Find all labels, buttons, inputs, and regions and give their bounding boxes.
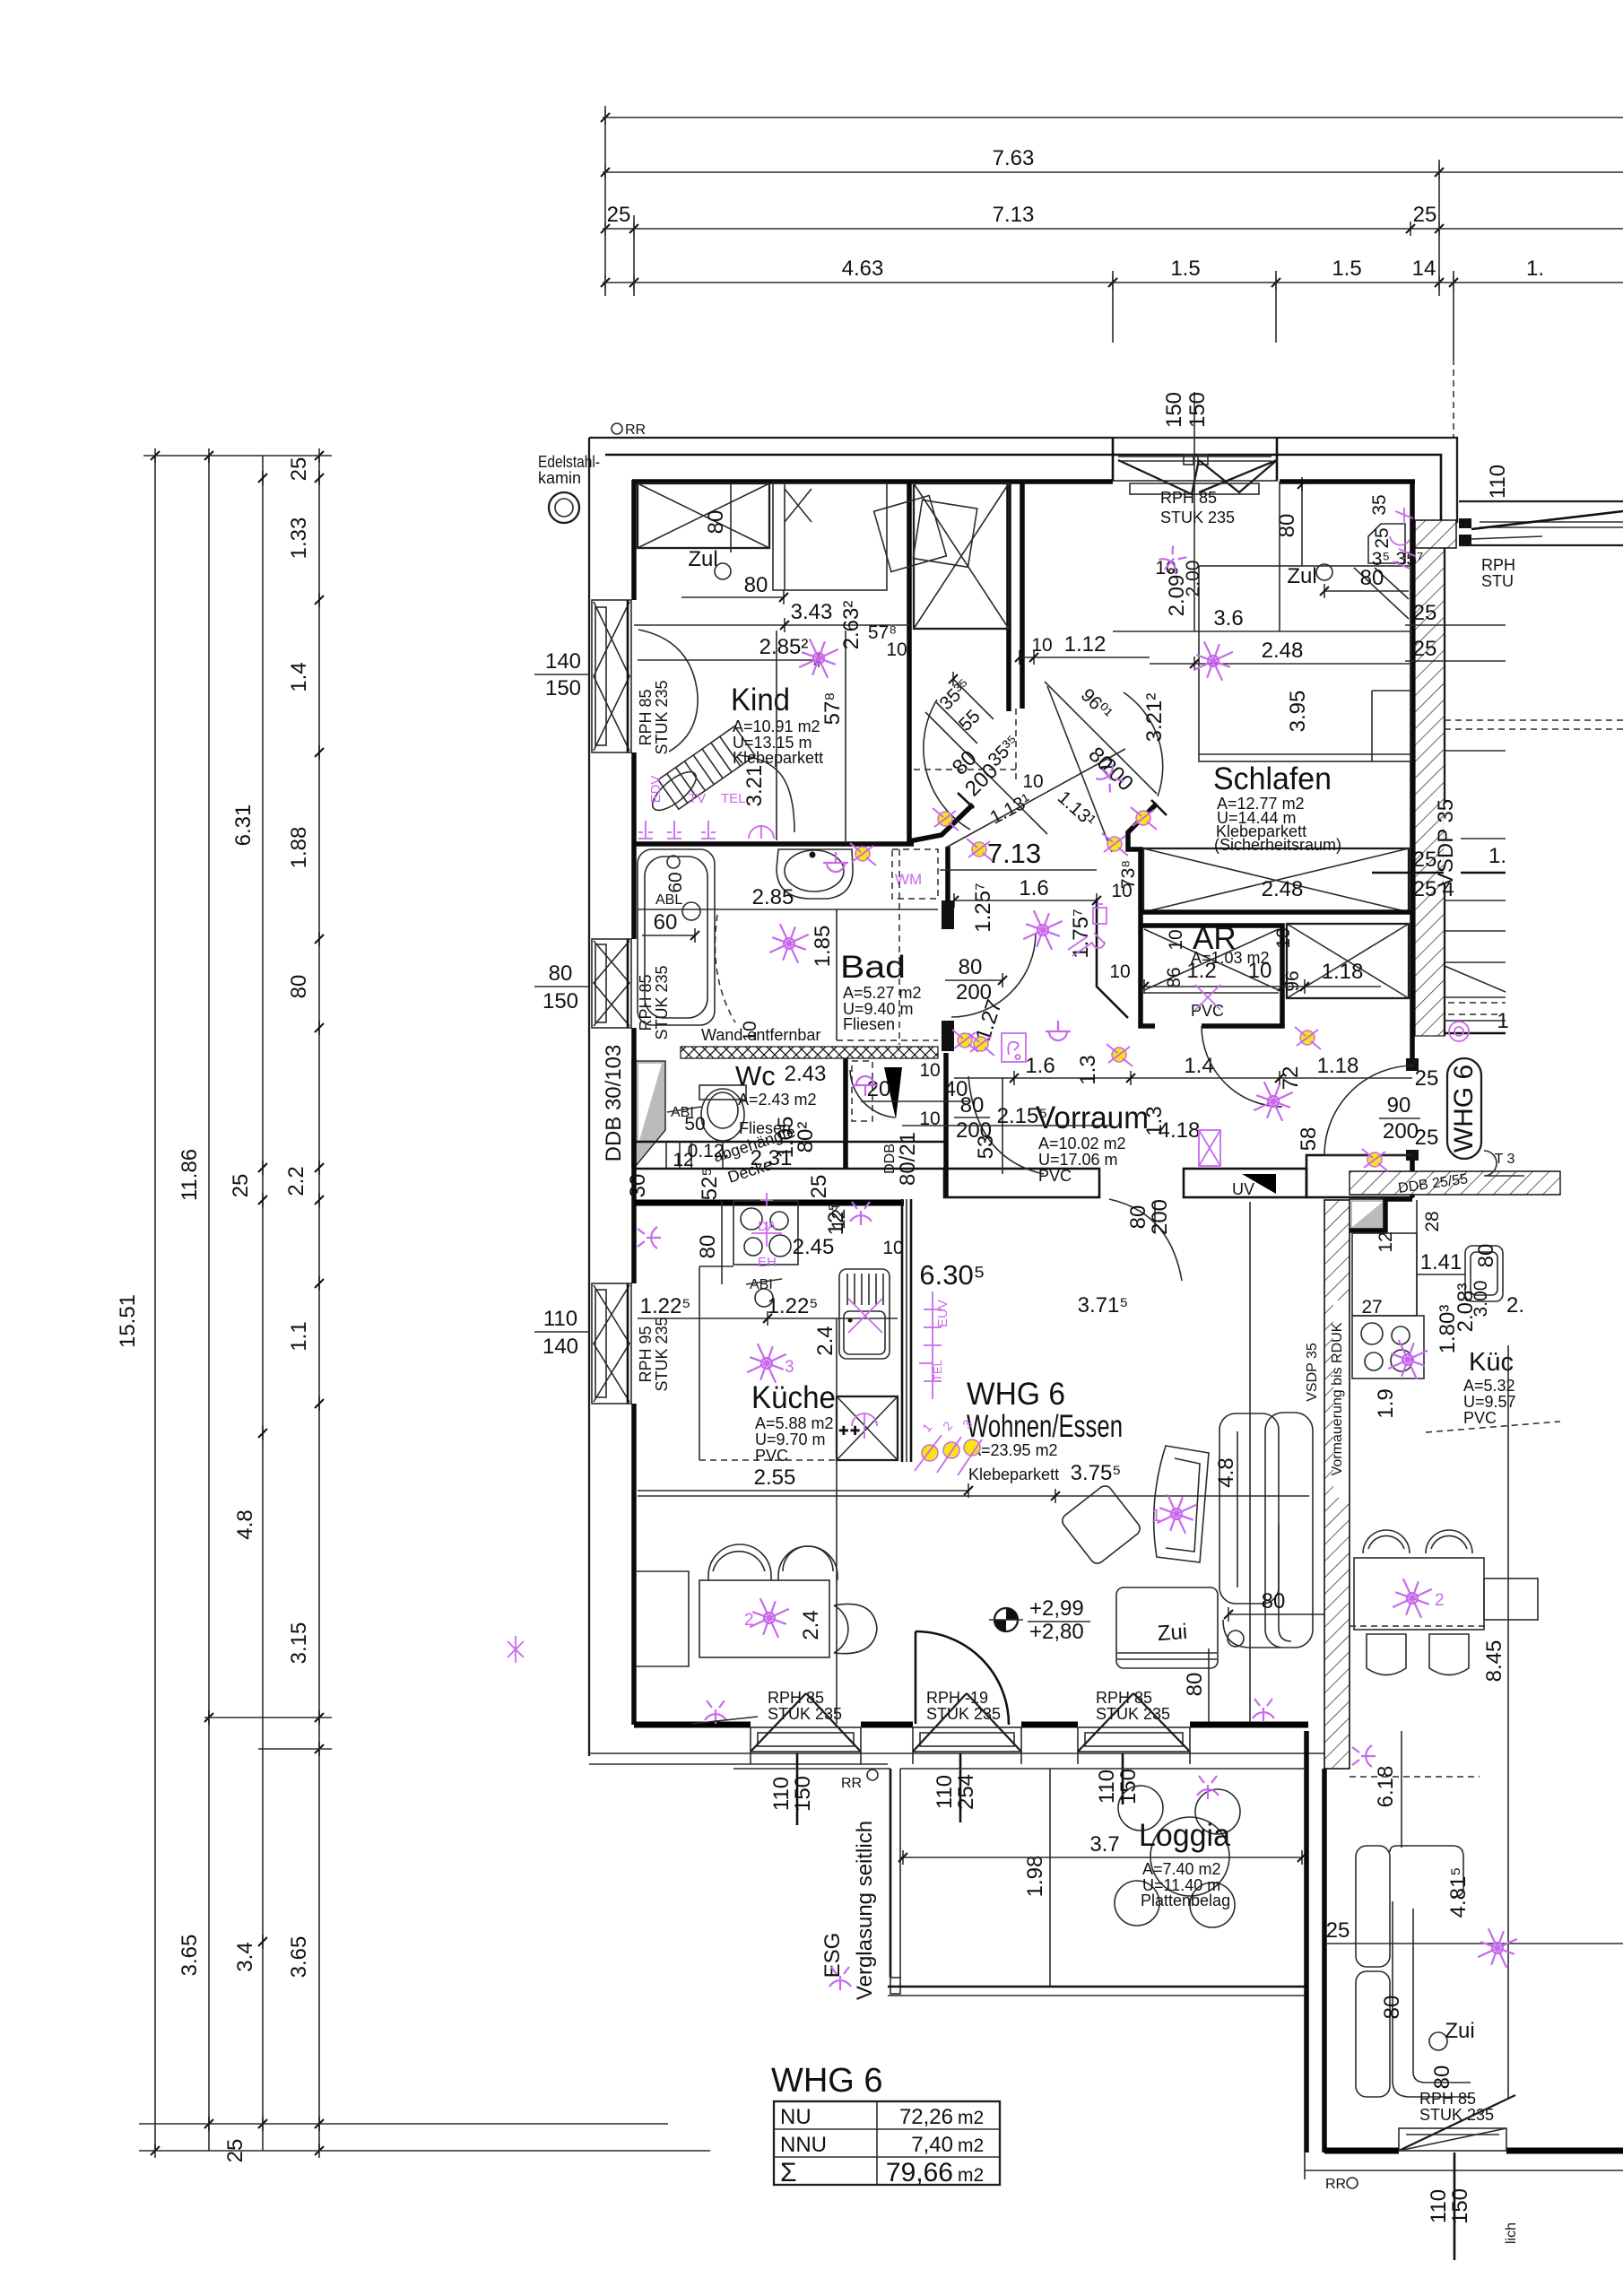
Wc door leaf black wedge (884, 1067, 902, 1119)
svg-text:80: 80 (1360, 566, 1384, 590)
socket vorraum right (1107, 1044, 1133, 1066)
svg-text:25: 25 (229, 1174, 253, 1198)
svg-text:2.45: 2.45 (793, 1235, 835, 1259)
svg-text:140: 140 (542, 1335, 578, 1359)
svg-text:80: 80 (1183, 1673, 1207, 1697)
top dim line 25/7.13/25 (603, 228, 1623, 230)
switch Kind top (1157, 544, 1188, 576)
svg-text:VSDP 35: VSDP 35 (1434, 799, 1458, 887)
door bell symbol (1002, 1033, 1026, 1062)
svg-text:2.85²: 2.85² (759, 635, 809, 659)
AR closet walls (1141, 926, 1282, 1026)
svg-text:STUK 235: STUK 235 (1160, 509, 1235, 526)
level marker (994, 1608, 1018, 1631)
svg-text:79,66: 79,66 (886, 2158, 953, 2187)
svg-text:150: 150 (542, 989, 578, 1013)
Schlafen right wall inner face (1410, 482, 1415, 1065)
hts symbol near wc (853, 1076, 878, 1096)
svg-text:STUK 235: STUK 235 (653, 680, 671, 754)
neighbor window top right (1459, 465, 1623, 590)
svg-text:80: 80 (959, 955, 983, 979)
Schlafen bed (1199, 566, 1410, 761)
sockets Bad basin (823, 852, 848, 872)
svg-text:EUV: EUV (935, 1300, 950, 1327)
svg-text:30: 30 (626, 1174, 650, 1198)
svg-text:1.5: 1.5 (1332, 257, 1361, 281)
ceiling light neighbor wohnen (1474, 1925, 1520, 1970)
bottom dim lines under wall (796, 1753, 799, 1825)
svg-text:254: 254 (954, 1774, 978, 1810)
svg-text:35⁷: 35⁷ (1396, 549, 1424, 570)
svg-text:RPH 85: RPH 85 (637, 689, 655, 745)
band piece right connecting door jamb (1306, 1155, 1412, 1197)
svg-text:12: 12 (673, 1150, 693, 1170)
svg-text:3.21²: 3.21² (1142, 693, 1167, 743)
svg-text:1.18: 1.18 (1322, 960, 1364, 984)
svg-text:1.22⁵: 1.22⁵ (640, 1294, 691, 1318)
neighbor dining table (1354, 1558, 1484, 1630)
svg-text:28: 28 (1422, 1211, 1443, 1231)
outer wall top line (589, 438, 1457, 523)
svg-text:1.4: 1.4 (287, 662, 311, 691)
svg-text:10: 10 (1031, 635, 1052, 656)
vestibule diagonal dims (935, 701, 977, 744)
Kind chair (647, 766, 701, 817)
UV black triangle in band (1242, 1174, 1276, 1194)
svg-text:1.: 1. (1526, 257, 1544, 281)
svg-text:10: 10 (882, 1238, 903, 1258)
svg-text:6.30⁵: 6.30⁵ (919, 1259, 985, 1291)
svg-text:80: 80 (960, 1093, 985, 1118)
svg-text:NNU: NNU (780, 2133, 827, 2157)
svg-text:3.7: 3.7 (1089, 1832, 1119, 1857)
svg-text:25: 25 (287, 457, 311, 482)
svg-text:10: 10 (1248, 959, 1272, 983)
switch bottom kueche (705, 1700, 726, 1724)
Kueche top wall (634, 1200, 904, 1206)
svg-text:Zul: Zul (1287, 564, 1316, 588)
ceiling light Kueche (743, 1340, 789, 1386)
svg-text:Bad: Bad (840, 950, 906, 985)
neighbor stove (1352, 1316, 1424, 1378)
dining table (699, 1580, 829, 1657)
WHG 6 oval label (1447, 1058, 1524, 1176)
ceiling light Bad (766, 920, 811, 966)
svg-text:lich: lich (1504, 2222, 1519, 2244)
svg-text:2.85: 2.85 (752, 885, 794, 909)
Schlafen dim 80 vertical (1301, 484, 1303, 566)
svg-text:6.31: 6.31 (231, 804, 256, 847)
svg-text:3.21: 3.21 (742, 765, 767, 807)
svg-text:57⁸: 57⁸ (820, 692, 845, 726)
svg-text:WHG 6: WHG 6 (967, 1377, 1065, 1412)
switch at Schlafen door (1094, 762, 1125, 794)
svg-text:3.43: 3.43 (791, 600, 833, 624)
svg-text:10: 10 (919, 1060, 940, 1081)
Bad door jamb top (942, 900, 954, 929)
vestibule door arcs (924, 700, 970, 830)
corner lintel hatched block (1415, 520, 1456, 548)
svg-text:Vorraum: Vorraum (1036, 1100, 1149, 1135)
svg-text:86: 86 (1164, 967, 1185, 987)
svg-text:150: 150 (1162, 392, 1186, 428)
svg-text:73⁸: 73⁸ (1118, 860, 1139, 889)
svg-text:3.71⁵: 3.71⁵ (1078, 1293, 1129, 1318)
left inner chain 25/1.33/1.4/1.88/80/2.2/1.1/3.15/3.65 (318, 456, 320, 2151)
svg-text:ABL: ABL (655, 892, 682, 908)
svg-text:Fliesen: Fliesen (843, 1015, 895, 1033)
Vorraum bottom wall white band (944, 1169, 1099, 1197)
svg-text:72,26: 72,26 (899, 2105, 953, 2129)
svg-text:80²: 80² (794, 1122, 818, 1153)
svg-text:10: 10 (1109, 961, 1130, 982)
svg-text:m2: m2 (958, 2135, 984, 2156)
svg-text:PVC: PVC (1038, 1167, 1072, 1185)
svg-text:4.8: 4.8 (233, 1509, 257, 1539)
svg-text:3⁵: 3⁵ (1372, 549, 1390, 570)
svg-text:58: 58 (1297, 1127, 1321, 1152)
svg-text:3.6: 3.6 (1213, 606, 1243, 631)
svg-text:A=5.32: A=5.32 (1463, 1377, 1515, 1395)
svg-text:110: 110 (1486, 465, 1510, 499)
svg-text:80: 80 (549, 961, 573, 986)
svg-text:1.98: 1.98 (1023, 1856, 1047, 1898)
svg-text:Küche: Küche (751, 1380, 836, 1415)
svg-text:7,40: 7,40 (911, 2133, 953, 2157)
svg-text:STUK 235: STUK 235 (1419, 2106, 1494, 2124)
right wall outer line (1444, 523, 1445, 1036)
svg-text:150: 150 (791, 1776, 815, 1812)
svg-text:STUK 235: STUK 235 (653, 965, 671, 1039)
svg-text:(Sicherheitsraum): (Sicherheitsraum) (1214, 836, 1341, 854)
left overall chain 15.51 (154, 456, 156, 2151)
stove X (573, 1332, 575, 1334)
corridor dim 1.12 (1020, 657, 1150, 658)
kueche sink X (848, 1299, 882, 1333)
loggia table set (1150, 1817, 1229, 1896)
yellow hex dots row (922, 1445, 938, 1461)
magenta round socket right wall (1449, 1022, 1469, 1041)
svg-text:25: 25 (607, 203, 631, 227)
svg-text:150: 150 (545, 676, 581, 700)
Kueche dishwasher X box (837, 1396, 898, 1460)
ceiling light Wohnen (1153, 1491, 1199, 1536)
svg-text:EH: EH (758, 1255, 777, 1270)
left chain 6.31 / 25 / 4.8 / 3.4 (262, 456, 264, 2151)
svg-text:6.18: 6.18 (1374, 1766, 1398, 1808)
svg-text:U=9.70 m: U=9.70 m (755, 1431, 826, 1448)
svg-text:140: 140 (545, 649, 581, 674)
Vorraum right wall door jambs (1410, 1155, 1415, 1197)
svg-text:1.33: 1.33 (287, 517, 311, 560)
svg-text:2.43: 2.43 (785, 1062, 827, 1086)
svg-text:Loggia: Loggia (1139, 1818, 1231, 1853)
svg-text:2.2: 2.2 (284, 1166, 308, 1196)
vestibule right jamb (1128, 804, 1157, 926)
svg-text:25: 25 (1413, 203, 1437, 227)
magenta UV box symbol (1199, 1130, 1220, 1166)
corridor-Vorraum door arc (968, 1076, 1044, 1174)
neighbor bottom dims (1454, 2152, 1456, 2260)
Bad washbasin (777, 849, 853, 899)
svg-text:2.48: 2.48 (1262, 639, 1304, 663)
Vormauerung label (1333, 1300, 1349, 1498)
svg-text:1.80³: 1.80³ (1436, 1305, 1460, 1354)
svg-text:110: 110 (543, 1307, 577, 1331)
svg-text:1: 1 (1151, 1507, 1161, 1526)
svg-text:Wand entfernbar: Wand entfernbar (701, 1026, 820, 1044)
svg-text:2.00: 2.00 (1183, 561, 1203, 597)
svg-text:7.63: 7.63 (993, 146, 1035, 170)
magenta deco vorraum heater (1068, 933, 1105, 956)
neighbor bottom wall (1324, 2148, 1399, 2154)
svg-text:200: 200 (1383, 1119, 1419, 1144)
svg-text:EDV: EDV (648, 776, 664, 804)
svg-text:+2,99: +2,99 (1029, 1596, 1084, 1621)
svg-text:25: 25 (1415, 1066, 1439, 1091)
svg-text:10: 10 (1022, 771, 1043, 792)
neighbor kitchen counter (1352, 1233, 1417, 1316)
svg-text:1.3: 1.3 (1142, 1106, 1167, 1135)
svg-text:1.41: 1.41 (1420, 1250, 1462, 1274)
right exterior wall hatched band (1415, 523, 1445, 1036)
top dim line 7.63 (603, 171, 1623, 173)
dashed witness to building corner (1453, 359, 1454, 437)
svg-text:110: 110 (1095, 1770, 1119, 1804)
svg-text:80: 80 (1126, 1205, 1150, 1230)
Wc left wall below shaft (631, 1058, 637, 1169)
svg-text:3.15: 3.15 (287, 1622, 311, 1665)
svg-text:25: 25 (807, 1175, 831, 1199)
Wc niche divider wall (843, 1058, 848, 1169)
svg-text:150: 150 (1185, 392, 1210, 428)
left chain 11.86 / 3.65 (208, 456, 210, 2151)
svg-text:Plattenbelag: Plattenbelag (1141, 1892, 1230, 1909)
AR cross diagonals (1144, 929, 1279, 990)
ceiling light neighbor dining (1389, 1575, 1435, 1621)
svg-text:Wohnen/Essen: Wohnen/Essen (967, 1409, 1123, 1444)
AR door arc (1202, 1026, 1282, 1107)
svg-text:1: 1 (1497, 1009, 1508, 1033)
svg-text:✚✚: ✚✚ (838, 1423, 861, 1438)
svg-text:Küc: Küc (1469, 1348, 1514, 1377)
corridor right wall double (1006, 482, 1011, 711)
Zul sofa (1116, 1587, 1218, 1668)
svg-text:A=2.43 m2: A=2.43 m2 (738, 1091, 817, 1109)
ceiling light Kind (795, 635, 841, 681)
svg-text:RPH: RPH (1481, 556, 1515, 574)
shaft gray box left of Wc (636, 1061, 665, 1166)
outer wall left line (588, 438, 590, 1756)
svg-text:35: 35 (1369, 494, 1390, 515)
svg-text:3: 3 (785, 1358, 794, 1377)
magenta X plain AR (1195, 985, 1220, 1010)
main bottom wall segments (634, 1722, 751, 1728)
svg-text:RR: RR (841, 1776, 862, 1791)
svg-text:U=17.06 m: U=17.06 m (1038, 1151, 1118, 1169)
switch Wc top (850, 1202, 872, 1225)
AR inner shelf line (1144, 992, 1279, 994)
svg-text:TV: TV (689, 791, 706, 806)
svg-text:52⁵: 52⁵ (698, 1168, 722, 1201)
svg-text:10: 10 (886, 639, 907, 660)
svg-text:Zul: Zul (688, 547, 717, 571)
svg-text:VSDP 35: VSDP 35 (1305, 1343, 1320, 1402)
svg-text:Klebeparkett: Klebeparkett (733, 749, 823, 767)
svg-text:PVC: PVC (755, 1447, 788, 1465)
svg-text:10: 10 (1273, 927, 1294, 948)
svg-text:110: 110 (1427, 2189, 1451, 2223)
svg-text:3.65: 3.65 (287, 1936, 311, 1979)
DDB dashed shaft (852, 1061, 872, 1121)
ceiling light neighbor kitchen (1384, 1336, 1430, 1382)
svg-text:1.85: 1.85 (811, 926, 835, 968)
summary table (774, 2101, 1000, 2185)
svg-text:STUK 235: STUK 235 (926, 1705, 1001, 1723)
loggia top edge line (900, 1768, 1306, 1770)
svg-text:DDB 30/103: DDB 30/103 (602, 1045, 626, 1162)
Kueche/Wohnen divider wall (901, 1199, 904, 1462)
top overall dim line (603, 117, 1623, 118)
svg-text:11.86: 11.86 (178, 1149, 202, 1201)
switch Kueche wall (638, 1227, 661, 1248)
svg-text:RPH 85: RPH 85 (1160, 489, 1217, 507)
svg-text:Schlafen: Schlafen (1213, 761, 1332, 796)
Kueche stove (733, 1201, 798, 1265)
svg-text:2: 2 (744, 1611, 754, 1630)
witness verticals top (604, 106, 606, 296)
svg-text:10: 10 (1166, 929, 1186, 950)
svg-text:1.3: 1.3 (1076, 1055, 1100, 1084)
svg-text:WHG 6: WHG 6 (1449, 1065, 1479, 1152)
svg-text:4.81⁵: 4.81⁵ (1446, 1867, 1471, 1918)
svg-text:Σ: Σ (780, 2158, 797, 2187)
svg-text:80: 80 (744, 573, 768, 597)
corridor tilted boxes (874, 496, 947, 572)
vestibule left jamb (909, 804, 973, 841)
Kind right wall (907, 482, 912, 844)
svg-text:80: 80 (1380, 1996, 1404, 2020)
corridor top closet X-box (914, 483, 1009, 629)
svg-text:UV: UV (1232, 1180, 1254, 1198)
socket near entry door (1295, 1027, 1321, 1049)
svg-text:A=7.40 m2: A=7.40 m2 (1142, 1860, 1221, 1878)
svg-text:1.25⁷: 1.25⁷ (971, 883, 995, 932)
EUV magenta column (919, 1291, 942, 1399)
svg-text:27: 27 (1361, 1297, 1382, 1318)
svg-text:25: 25 (1415, 1126, 1439, 1150)
outer wall top inner line (605, 455, 1441, 523)
svg-text:25: 25 (1413, 637, 1437, 661)
top dim line 4.63/1.5/1.5/14 (603, 282, 1623, 283)
svg-text:2.4: 2.4 (799, 1610, 823, 1639)
svg-text:80: 80 (696, 1235, 720, 1259)
ceiling light Schlafen (1190, 638, 1236, 683)
svg-text:Zuі: Zuі (1445, 2019, 1474, 2043)
window top 150/150 (1113, 392, 1277, 526)
switch near AR (1046, 1021, 1071, 1040)
Bad right wall upper (945, 847, 950, 902)
svg-text:m2: m2 (958, 2165, 984, 2186)
svg-text:2.63²: 2.63² (839, 601, 864, 650)
Schlafen closet X-box (1143, 848, 1409, 912)
svg-text:1.5: 1.5 (1170, 257, 1200, 281)
armchair (1154, 1446, 1209, 1562)
svg-text:80: 80 (1262, 1589, 1286, 1613)
svg-text:TEL: TEL (721, 791, 746, 806)
svg-text:12: 12 (1376, 1231, 1396, 1252)
Bad door jamb bottom (942, 1021, 954, 1051)
sideboard west wall (637, 1571, 689, 1666)
svg-text:1.4: 1.4 (1184, 1054, 1213, 1078)
svg-text:A=5.88 m2: A=5.88 m2 (755, 1414, 834, 1432)
closet X-box right of AR (1287, 924, 1409, 998)
svg-text:Kind: Kind (731, 683, 790, 717)
neighbor sofa (1356, 1846, 1390, 1967)
window Bad left 80/150 (592, 939, 671, 1040)
svg-text:Klebeparkett: Klebeparkett (968, 1465, 1059, 1483)
svg-text:1.1: 1.1 (287, 1321, 311, 1351)
ceiling light Vorraum mid (1250, 1078, 1296, 1124)
coffee table (1060, 1483, 1143, 1567)
svg-text:20: 20 (867, 1077, 891, 1101)
loggia glass left (890, 1769, 892, 1978)
svg-text:25: 25 (1372, 527, 1393, 548)
Kind curved wall arc deco (638, 630, 698, 752)
svg-text:2.55: 2.55 (754, 1465, 796, 1490)
ceiling light dining (746, 1595, 792, 1640)
svg-text:1.88: 1.88 (287, 827, 311, 869)
Schlafen pier pentagon (1368, 524, 1405, 563)
RR marker top (612, 423, 622, 434)
svg-text:7.13: 7.13 (987, 838, 1041, 869)
svg-text:80: 80 (1474, 1244, 1498, 1268)
svg-text:14: 14 (1412, 257, 1436, 281)
neighbor kitchen wall stub (1350, 1199, 1412, 1231)
svg-text:2: 2 (1435, 1591, 1445, 1610)
svg-text:RR: RR (1325, 2177, 1346, 2192)
svg-text:1.6: 1.6 (1025, 1054, 1055, 1078)
svg-text:3.95: 3.95 (1286, 691, 1310, 733)
Bad dashed ceiling (716, 915, 736, 1022)
svg-text:RPH 85: RPH 85 (1419, 2090, 1476, 2108)
svg-text:1.: 1. (1488, 844, 1506, 868)
svg-text:2.4: 2.4 (813, 1326, 838, 1355)
svg-text:80: 80 (1430, 2066, 1454, 2090)
gray shaft top right of Kueche divider (1350, 1199, 1385, 1231)
svg-text:kamin: kamin (538, 469, 581, 487)
svg-text:80: 80 (704, 510, 728, 535)
svg-text:1.22⁵: 1.22⁵ (768, 1294, 819, 1318)
sockets bad door (952, 1030, 978, 1052)
bottom outer band lines (751, 1752, 1306, 1769)
svg-text:Edelstahl-: Edelstahl- (538, 453, 600, 471)
Wc crosshatch removable wall (681, 1047, 938, 1058)
neighbor sink (1465, 1246, 1503, 1301)
switch group vestibule left (933, 808, 959, 831)
svg-text:12⁵: 12⁵ (829, 1201, 849, 1230)
Wc bottom wall white band (634, 1141, 944, 1144)
svg-text:PVC: PVC (1463, 1409, 1497, 1427)
svg-text:WHG 6: WHG 6 (771, 2062, 883, 2100)
svg-text:72: 72 (1279, 1066, 1303, 1091)
svg-text:80: 80 (1275, 514, 1299, 538)
ceiling light Vorraum top (1020, 907, 1065, 952)
svg-text:STU: STU (1481, 572, 1514, 590)
svg-text:Verglasung seitlich: Verglasung seitlich (853, 1821, 877, 2000)
Vorraum-Wohnen door arc below band (1109, 1199, 1182, 1281)
inner face left wall segments (631, 480, 637, 600)
